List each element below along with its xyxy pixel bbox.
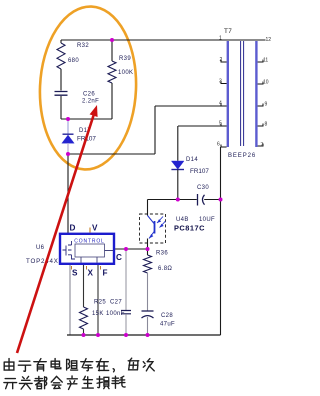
svg-text:C30: C30 <box>197 185 209 191</box>
wire riser to pin4 <box>154 106 156 154</box>
wire C pin <box>114 248 148 250</box>
svg-text:BEEP26: BEEP26 <box>228 153 256 159</box>
svg-text:V: V <box>92 224 98 233</box>
svg-text:4: 4 <box>219 101 222 107</box>
mosfet inside U6 <box>63 241 76 259</box>
junction opto emitter / R36 <box>146 247 150 251</box>
junction R39 top rail <box>110 38 114 42</box>
resistor R32 <box>57 43 65 69</box>
svg-text:6.8Ω: 6.8Ω <box>158 266 172 272</box>
svg-text:D14: D14 <box>186 157 198 163</box>
capacitor C26 <box>55 92 68 96</box>
wire clamp bottom <box>68 153 155 155</box>
annotation text line 2: 开关都会产生损耗 <box>4 379 17 389</box>
pin number ticks <box>72 266 101 270</box>
ground rail <box>67 334 221 336</box>
svg-text:X: X <box>88 269 94 278</box>
junction bias node <box>176 198 180 202</box>
wire S pin <box>69 264 71 335</box>
junction drain node <box>66 152 70 156</box>
svg-text:100nF: 100nF <box>106 311 125 317</box>
svg-text:15K: 15K <box>92 311 104 317</box>
svg-text:2: 2 <box>220 57 223 63</box>
junction clamp node <box>66 117 70 121</box>
wire R32 to C26 <box>60 69 62 91</box>
diode D14 <box>177 126 179 161</box>
svg-text:680: 680 <box>68 58 79 64</box>
svg-text:U4B: U4B <box>176 217 189 223</box>
junction pin6 return <box>219 198 223 202</box>
T7 pin 5 stub <box>221 124 227 127</box>
T7 pin 2 stub <box>221 60 227 63</box>
wire pin6 drop <box>221 147 227 335</box>
opto emitter wire <box>147 239 149 250</box>
V pin tick <box>89 228 91 233</box>
wire snubber left branch top <box>60 40 62 43</box>
svg-text:C26: C26 <box>83 92 95 98</box>
wire pin5 <box>178 125 227 127</box>
op IC U6 TOP switch <box>60 234 114 264</box>
capacitor C28 <box>142 310 154 312</box>
svg-text:CONTROL: CONTROL <box>74 239 104 245</box>
svg-text:8: 8 <box>265 122 268 128</box>
T7 pin 6 stub <box>221 145 227 148</box>
T7 pin 10 stub <box>258 82 263 85</box>
wire bias rail <box>148 199 221 201</box>
junction C27 ground <box>124 333 128 337</box>
junction C28 ground <box>146 333 150 337</box>
svg-text:9: 9 <box>265 102 268 108</box>
transformer T7 secondary winding bar <box>255 41 257 147</box>
wire top rail <box>61 39 266 41</box>
opto U4B dashed box <box>140 214 166 243</box>
svg-text:1: 1 <box>219 36 222 42</box>
junction R25 ground <box>82 333 86 337</box>
wire drain <box>67 154 69 234</box>
svg-text:C28: C28 <box>161 313 173 319</box>
highlight ellipse <box>36 4 139 171</box>
svg-text:100K: 100K <box>118 70 133 76</box>
opto collector wire <box>147 200 149 216</box>
capacitor C27 <box>121 311 131 314</box>
T7 pin 9 stub <box>258 104 263 107</box>
opto phototransistor <box>148 216 155 224</box>
svg-text:2.2nF: 2.2nF <box>82 99 99 105</box>
junction C27 tap on CONTROL pin <box>124 247 128 251</box>
wire pin4 <box>155 105 227 107</box>
resistor R25 on X pin <box>83 264 85 307</box>
svg-text:5: 5 <box>219 121 222 127</box>
svg-text:D: D <box>70 224 76 233</box>
svg-text:S: S <box>72 269 78 278</box>
svg-text:T7: T7 <box>224 28 232 35</box>
svg-text:R36: R36 <box>156 251 168 257</box>
svg-text:7: 7 <box>261 143 264 149</box>
svg-text:FR107: FR107 <box>190 168 209 175</box>
wire snubber bottom rail <box>61 118 112 120</box>
svg-text:C27: C27 <box>110 300 122 306</box>
T7 pin 11 stub <box>258 60 263 63</box>
T7 pin 7 stub <box>258 144 263 147</box>
wire C-pin bypass <box>125 249 127 310</box>
T7 pin 3 stub <box>221 81 227 84</box>
junction F pin ground <box>96 333 100 337</box>
red annotation arrow <box>17 116 94 354</box>
transformer T7 core <box>241 41 244 146</box>
T7 pin 4 stub <box>221 104 227 107</box>
svg-text:R32: R32 <box>77 43 89 49</box>
wire F pin <box>97 264 99 335</box>
T7 pin 8 stub <box>258 124 263 127</box>
svg-text:11: 11 <box>263 58 268 64</box>
capacitor C30 <box>197 194 199 206</box>
svg-text:R39: R39 <box>119 56 131 62</box>
svg-text:47uF: 47uF <box>160 322 175 328</box>
svg-text:PC817C: PC817C <box>174 224 205 233</box>
annotation text line 1: 由于有电阻存在，每次 <box>4 359 14 370</box>
svg-text:C: C <box>116 253 122 262</box>
wire C26 to bottom <box>60 96 62 119</box>
svg-text:3: 3 <box>219 79 222 85</box>
diode D17 <box>67 119 69 134</box>
svg-text:12: 12 <box>266 37 272 43</box>
svg-text:6: 6 <box>217 142 220 148</box>
resistor R36 <box>147 249 149 255</box>
svg-text:TOP244X: TOP244X <box>26 258 59 265</box>
svg-text:F: F <box>103 269 108 278</box>
svg-text:R25: R25 <box>94 300 106 306</box>
svg-text:10: 10 <box>263 80 269 86</box>
svg-text:U6: U6 <box>36 245 45 251</box>
resistor R39 <box>111 40 113 61</box>
svg-text:10UF: 10UF <box>199 217 215 223</box>
transformer T7 primary winding bar <box>227 41 229 147</box>
